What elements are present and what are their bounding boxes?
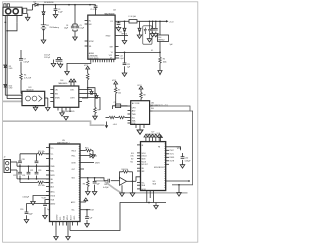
svg-text:1µF: 1µF	[90, 218, 93, 220]
svg-text:HVDD: HVDD	[92, 156, 98, 158]
svg-text:C13: C13	[120, 55, 123, 57]
svg-text:C50: C50	[185, 158, 188, 160]
svg-text:INL: INL	[142, 168, 145, 170]
svg-text:AC COM: AC COM	[132, 102, 140, 105]
svg-text:OUT: OUT	[72, 169, 75, 171]
svg-text:D8 MBR0530: D8 MBR0530	[44, 2, 54, 4]
svg-text:INL: INL	[51, 179, 54, 181]
svg-text:R7: R7	[118, 90, 120, 92]
svg-text:SYNC: SYNC	[89, 41, 95, 43]
svg-text:R4: R4	[24, 75, 26, 77]
svg-text:MAX8566E: MAX8566E	[105, 13, 116, 16]
svg-text:OUTL: OUTL	[70, 89, 74, 91]
svg-text:C9: C9	[24, 59, 26, 61]
svg-text:BST: BST	[110, 46, 113, 48]
svg-text:D7: D7	[34, 2, 36, 4]
svg-text:4.7k, 1W: 4.7k, 1W	[24, 77, 31, 79]
svg-text:0.47µF: 0.47µF	[24, 61, 31, 63]
svg-text:TWD: TWD	[132, 114, 137, 116]
svg-text:MAX4410: MAX4410	[59, 82, 69, 85]
svg-text:10k: 10k	[118, 92, 121, 94]
svg-text:C1: C1	[114, 102, 116, 104]
svg-text:SCL: SCL	[131, 153, 134, 155]
svg-text:MAX4410EUD: MAX4410EUD	[62, 110, 76, 113]
svg-text:D14: D14	[158, 37, 161, 39]
svg-text:B1: B1	[47, 25, 49, 27]
svg-text:BCLK: BCLK	[71, 215, 73, 220]
svg-text:R11 20k: R11 20k	[38, 151, 45, 153]
svg-text:R6: R6	[83, 184, 85, 186]
svg-text:R46 20k: R46 20k	[122, 169, 129, 171]
svg-text:MCLK: MCLK	[67, 214, 69, 220]
svg-text:9V Battery: 9V Battery	[50, 26, 59, 29]
svg-text:VL: VL	[151, 50, 153, 52]
svg-text:MBR052: MBR052	[158, 39, 164, 41]
svg-text:R9: R9	[98, 110, 100, 112]
svg-text:Cw-: Cw-	[51, 154, 54, 156]
svg-text:OUTL: OUTL	[170, 154, 174, 156]
svg-text:Cw+: Cw+	[51, 147, 54, 149]
svg-text:0.022µF: 0.022µF	[23, 196, 31, 198]
svg-text:VL: VL	[111, 52, 113, 54]
svg-text:C11: C11	[127, 64, 130, 66]
svg-text:MCLK/MCLKO: MCLK/MCLKO	[154, 167, 165, 169]
svg-text:C24: C24	[22, 175, 25, 177]
svg-text:RVCO: RVCO	[72, 150, 77, 152]
svg-text:VCM: VCM	[42, 197, 46, 199]
svg-text:SCL: SCL	[60, 217, 62, 221]
svg-text:R5: R5	[163, 59, 165, 61]
svg-text:C12 1µF: C12 1µF	[44, 55, 50, 57]
svg-text:DGND: DGND	[57, 214, 59, 220]
svg-text:CPG: CPG	[132, 108, 136, 110]
svg-text:C23: C23	[38, 170, 41, 172]
svg-text:100k: 100k	[163, 61, 167, 63]
svg-text:HVLL: HVLL	[72, 155, 76, 157]
svg-text:0.1µF: 0.1µF	[120, 58, 124, 60]
svg-text:L1 4.7µH: L1 4.7µH	[129, 16, 137, 18]
svg-text:SCL: SCL	[132, 117, 136, 119]
svg-text:MID400: MID400	[27, 90, 35, 92]
svg-text:LRCL: LRCL	[74, 215, 76, 220]
svg-text:C13 1µF: C13 1µF	[44, 57, 50, 59]
svg-text:SCL: SCL	[142, 182, 145, 184]
svg-text:MB: MB	[51, 158, 53, 160]
svg-text:0.47µF: 0.47µF	[103, 187, 110, 189]
svg-text:0.68µF: 0.68µF	[185, 161, 192, 163]
svg-text:R8: R8	[143, 95, 145, 97]
svg-text:MAX9850ETJ: MAX9850ETJ	[57, 142, 69, 145]
svg-text:C20: C20	[22, 159, 25, 161]
svg-text:D5: D5	[120, 32, 122, 34]
svg-text:SCL: SCL	[72, 210, 75, 212]
svg-text:MICL: MICL	[51, 170, 55, 172]
svg-text:VCA: VCA	[177, 147, 182, 150]
svg-text:C21: C21	[30, 170, 33, 172]
svg-text:FB: FB	[158, 147, 160, 149]
svg-text:AGND: AGND	[89, 52, 95, 55]
svg-text:MC OUT: MC OUT	[142, 164, 148, 166]
svg-text:DIGR: DIGR	[95, 163, 100, 165]
svg-text:R20: R20	[85, 147, 88, 149]
svg-text:R12 20k: R12 20k	[38, 185, 45, 187]
svg-text:C30: C30	[20, 209, 23, 211]
svg-text:J2: J2	[4, 156, 6, 158]
svg-text:C1 4.7µF: C1 4.7µF	[90, 9, 97, 11]
svg-text:SCL: SCL	[153, 181, 156, 183]
svg-text:C22: C22	[13, 175, 16, 177]
